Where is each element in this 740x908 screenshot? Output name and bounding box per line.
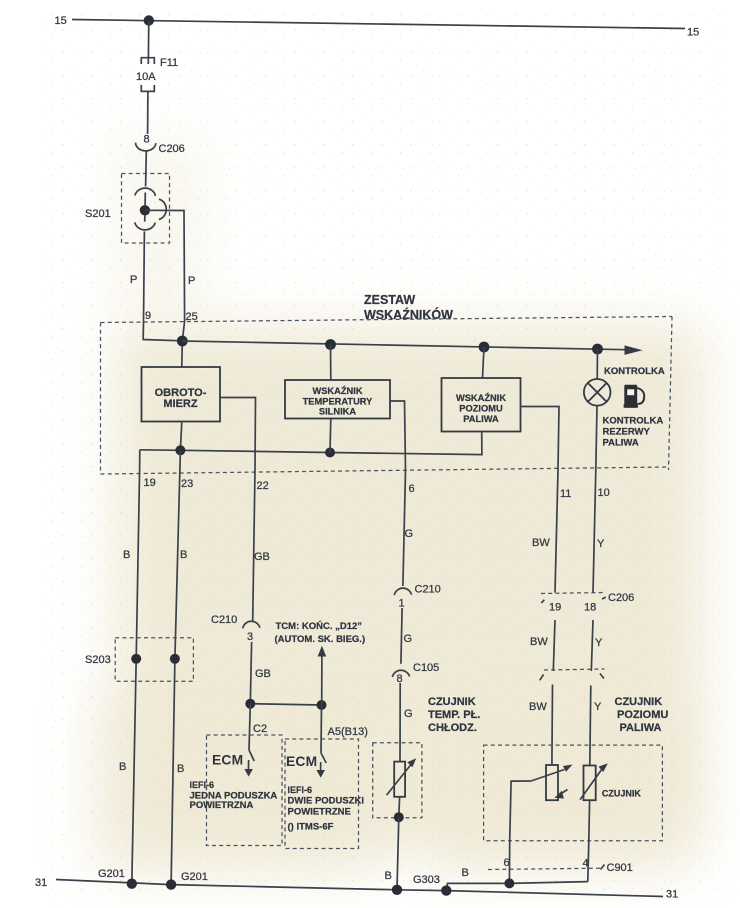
svg-text:G: G bbox=[404, 633, 413, 645]
wire Y mid bbox=[591, 620, 593, 671]
svg-text:WSKAŹNIK: WSKAŹNIK bbox=[456, 393, 506, 403]
svg-text:6: 6 bbox=[409, 483, 415, 495]
label CZUJNIK TEMP bbox=[428, 696, 480, 734]
wire A5 into ECM bbox=[320, 705, 323, 753]
wire S201 down (P) bbox=[143, 231, 146, 321]
pin symbol A5 bbox=[316, 753, 326, 778]
svg-text:MIERZ: MIERZ bbox=[163, 398, 198, 410]
wire 6 G lower bbox=[399, 683, 401, 762]
ECM box 1 bbox=[207, 735, 283, 846]
svg-text:Y: Y bbox=[594, 701, 602, 713]
svg-text:C901: C901 bbox=[607, 862, 633, 874]
resistor fuel 2 bbox=[584, 766, 596, 801]
node tach bottom bbox=[175, 445, 185, 455]
wire gauge ground chain bbox=[140, 432, 482, 455]
svg-text:CZUJNIK: CZUJNIK bbox=[602, 789, 642, 799]
svg-text:G: G bbox=[405, 528, 414, 540]
svg-text:15: 15 bbox=[55, 15, 67, 27]
svg-text:ECM: ECM bbox=[286, 754, 317, 769]
svg-text:B: B bbox=[385, 870, 392, 882]
svg-text:15: 15 bbox=[687, 27, 699, 39]
svg-text:(AUTOM. SK. BIEG.): (AUTOM. SK. BIEG.) bbox=[275, 634, 366, 645]
ground G201 a bbox=[127, 879, 137, 889]
svg-text:31: 31 bbox=[35, 877, 47, 889]
arrow bus end bbox=[625, 345, 643, 355]
svg-text:P: P bbox=[188, 275, 195, 287]
node temp bottom bbox=[325, 448, 335, 458]
wire pin25 down bbox=[182, 322, 185, 368]
wire 6 G mid bbox=[401, 608, 402, 664]
wire bus to temp gauge bbox=[330, 345, 332, 381]
svg-text:PALIWA: PALIWA bbox=[603, 438, 639, 449]
svg-text:11: 11 bbox=[560, 488, 571, 500]
wiper arrow 2 bbox=[580, 769, 602, 800]
svg-text:BW: BW bbox=[532, 537, 550, 549]
resistor body bbox=[394, 762, 405, 797]
svg-text:REZERWY: REZERWY bbox=[603, 427, 651, 438]
wire fuel 4 to C901 bbox=[588, 841, 589, 882]
lamp KONTROLKA bbox=[584, 366, 665, 406]
wire BW lower bbox=[551, 685, 554, 766]
label CZUJNIK POZIOMU PALIWA bbox=[615, 696, 669, 734]
node bus-fuel bbox=[479, 342, 490, 353]
wire bus to fuel gauge bbox=[483, 347, 485, 378]
wire bus 15 top bbox=[72, 20, 685, 29]
svg-text:ECM: ECM bbox=[212, 753, 243, 768]
temp gauge WSKAZNIK TEMPERATURY SILNIKA bbox=[285, 380, 390, 419]
node bus junction bbox=[177, 336, 188, 347]
wire BW mid bbox=[553, 620, 555, 671]
svg-text:C105: C105 bbox=[413, 662, 439, 674]
ground G303 bbox=[392, 885, 402, 895]
svg-text:KONTROLKA: KONTROLKA bbox=[603, 416, 664, 427]
svg-text:10: 10 bbox=[598, 487, 610, 499]
svg-text:C206: C206 bbox=[608, 592, 634, 604]
splice S203 bbox=[85, 638, 193, 681]
wire pin9 into bus bbox=[143, 322, 182, 341]
wire 19 drop bbox=[139, 450, 141, 470]
svg-text:BW: BW bbox=[530, 636, 548, 648]
node fuel link bbox=[504, 878, 514, 888]
ground G201 b bbox=[166, 879, 176, 889]
svg-text:POZIOMU: POZIOMU bbox=[459, 404, 503, 414]
wire fuel 6 to C901 bbox=[508, 841, 510, 883]
wire below resistor 2 bbox=[588, 800, 591, 841]
coolant temp sensor box bbox=[373, 743, 422, 823]
wire C2 into ECM bbox=[249, 704, 250, 750]
svg-text:DWIE PODUSZKI: DWIE PODUSZKI bbox=[288, 796, 365, 807]
tachometer OBROTOMIERZ bbox=[142, 367, 221, 422]
wire below resistor bbox=[398, 797, 401, 817]
svg-text:TCM: KOŃC. „D12”: TCM: KOŃC. „D12” bbox=[276, 621, 363, 632]
label TCM bbox=[275, 621, 366, 645]
svg-text:POZIOMU: POZIOMU bbox=[617, 709, 668, 721]
wire 19 B bbox=[132, 470, 140, 884]
small arrow SW bbox=[561, 790, 568, 795]
svg-text:() ITMS-6F: () ITMS-6F bbox=[288, 822, 334, 833]
node GB-C2 bbox=[245, 699, 255, 709]
wire fuel right to 11 bbox=[521, 407, 560, 471]
svg-text:19: 19 bbox=[549, 602, 561, 614]
connector C206 pins 19 18 bbox=[541, 592, 634, 614]
connector C901 bbox=[488, 857, 633, 874]
svg-text:POWIETRZNA: POWIETRZNA bbox=[190, 800, 254, 811]
svg-text:G201: G201 bbox=[181, 871, 208, 883]
svg-text:C210: C210 bbox=[211, 614, 237, 626]
svg-text:B: B bbox=[177, 763, 184, 775]
wiper arrow bbox=[387, 765, 411, 796]
connector C210 pin 3 bbox=[211, 614, 260, 643]
wire 6 G upper bbox=[403, 470, 406, 586]
svg-text:3: 3 bbox=[247, 631, 253, 643]
connector inline bbox=[540, 669, 605, 680]
junction top bbox=[144, 15, 154, 25]
svg-text:18: 18 bbox=[584, 602, 596, 614]
wire tach bottom bbox=[180, 422, 181, 451]
svg-text:CHŁODZ.: CHŁODZ. bbox=[428, 722, 477, 734]
wire tach right to 22 bbox=[220, 398, 256, 471]
svg-text:6: 6 bbox=[504, 857, 510, 869]
label IEFI-6 dwie bbox=[288, 785, 365, 833]
svg-text:B: B bbox=[123, 549, 130, 561]
wire temp bottom bbox=[329, 419, 332, 453]
wiper arrow 1 bbox=[531, 770, 565, 782]
fuse F11 bbox=[141, 58, 154, 134]
svg-text:B: B bbox=[180, 549, 187, 561]
svg-text:B: B bbox=[119, 761, 126, 773]
svg-text:IEFI-6: IEFI-6 bbox=[288, 785, 313, 795]
arrow to TCM bbox=[318, 646, 327, 705]
svg-text:10A: 10A bbox=[136, 71, 156, 83]
svg-text:TEMP. PŁ.: TEMP. PŁ. bbox=[428, 709, 480, 721]
fuel pump icon bbox=[624, 385, 645, 408]
wire 22 GB upper bbox=[253, 470, 255, 621]
svg-text:F11: F11 bbox=[160, 57, 178, 69]
svg-text:Y: Y bbox=[597, 538, 605, 550]
node B-fuel to bus bbox=[441, 885, 451, 895]
svg-text:9: 9 bbox=[145, 310, 151, 322]
wire coolant to ground bbox=[397, 817, 399, 889]
ground bus 31 bbox=[56, 880, 663, 897]
svg-text:GB: GB bbox=[255, 668, 271, 680]
svg-text:4: 4 bbox=[583, 858, 589, 870]
instrument cluster box ZESTAW WSKAZNIKOW bbox=[101, 293, 673, 474]
connector C206 pin 8 bbox=[136, 134, 185, 156]
fuel level sensor box bbox=[484, 745, 663, 841]
svg-text:GB: GB bbox=[254, 551, 270, 563]
svg-text:1: 1 bbox=[399, 598, 405, 610]
node bus-lamp bbox=[592, 344, 603, 355]
label KONTROLKA REZERWY PALIWA bbox=[603, 416, 664, 449]
svg-text:S201: S201 bbox=[85, 208, 111, 220]
svg-text:31: 31 bbox=[666, 889, 678, 901]
label IEFI-6 jedna bbox=[190, 780, 278, 811]
resistor fuel 1 bbox=[546, 765, 558, 800]
svg-text:SILNIKA: SILNIKA bbox=[319, 407, 356, 417]
wiper link bbox=[510, 781, 531, 841]
svg-text:PALIWA: PALIWA bbox=[463, 414, 499, 424]
connector C210 pin 1 bbox=[394, 584, 440, 610]
svg-text:B: B bbox=[462, 867, 469, 879]
wire temp right to 6 bbox=[390, 401, 406, 470]
svg-text:G: G bbox=[404, 708, 413, 720]
wire to fuse bbox=[147, 21, 150, 65]
fuel gauge WSKAZNIK POZIOMU PALIWA bbox=[442, 378, 521, 432]
pin symbol C2 bbox=[244, 750, 254, 777]
wire C206 to S201 bbox=[145, 151, 148, 187]
svg-text:23: 23 bbox=[181, 478, 193, 490]
wire Y lower bbox=[590, 686, 591, 766]
wire bus to lamp bbox=[596, 349, 598, 379]
svg-text:19: 19 bbox=[144, 477, 156, 489]
svg-text:G303: G303 bbox=[413, 874, 440, 886]
wire link C2/A5 bbox=[250, 704, 321, 705]
svg-text:8: 8 bbox=[144, 134, 150, 146]
svg-text:C206: C206 bbox=[159, 143, 185, 155]
wire fuel sensors to ground bbox=[446, 882, 588, 891]
svg-text:G201: G201 bbox=[98, 868, 125, 880]
wire 11 BW upper bbox=[555, 470, 558, 593]
wire cluster bus bbox=[182, 341, 626, 350]
wire S201 right branch bbox=[145, 210, 185, 321]
svg-text:S203: S203 bbox=[85, 654, 111, 666]
node GB-A5 bbox=[317, 700, 327, 710]
svg-text:WSKAŹNIK: WSKAŹNIK bbox=[312, 386, 362, 396]
switch S201 bbox=[85, 174, 170, 244]
svg-text:PALIWA: PALIWA bbox=[620, 722, 662, 734]
svg-text:BW: BW bbox=[529, 701, 547, 713]
svg-text:CZUJNIK: CZUJNIK bbox=[428, 696, 476, 708]
node bus-temp bbox=[325, 339, 336, 350]
wire 22 GB lower bbox=[250, 642, 251, 704]
svg-text:C210: C210 bbox=[415, 584, 441, 596]
ECM box 2 bbox=[285, 739, 359, 849]
svg-text:KONTROLKA: KONTROLKA bbox=[604, 366, 665, 377]
svg-text:22: 22 bbox=[257, 480, 269, 492]
svg-text:TEMPERATURY: TEMPERATURY bbox=[303, 397, 374, 407]
wire lamp down bbox=[596, 406, 597, 471]
connector C105 pin 8 bbox=[392, 662, 439, 685]
svg-text:A5(B13): A5(B13) bbox=[328, 726, 368, 738]
svg-text:Y: Y bbox=[595, 637, 603, 649]
svg-text:CZUJNIK: CZUJNIK bbox=[615, 696, 663, 708]
svg-text:C2: C2 bbox=[253, 723, 267, 735]
svg-text:ZESTAW: ZESTAW bbox=[364, 293, 415, 307]
wire 23 B bbox=[171, 450, 180, 885]
wire 10 Y upper bbox=[593, 470, 596, 593]
svg-text:POWIETRZNE: POWIETRZNE bbox=[288, 807, 351, 818]
svg-text:IEFI-6: IEFI-6 bbox=[190, 780, 215, 790]
svg-text:P: P bbox=[130, 274, 137, 286]
